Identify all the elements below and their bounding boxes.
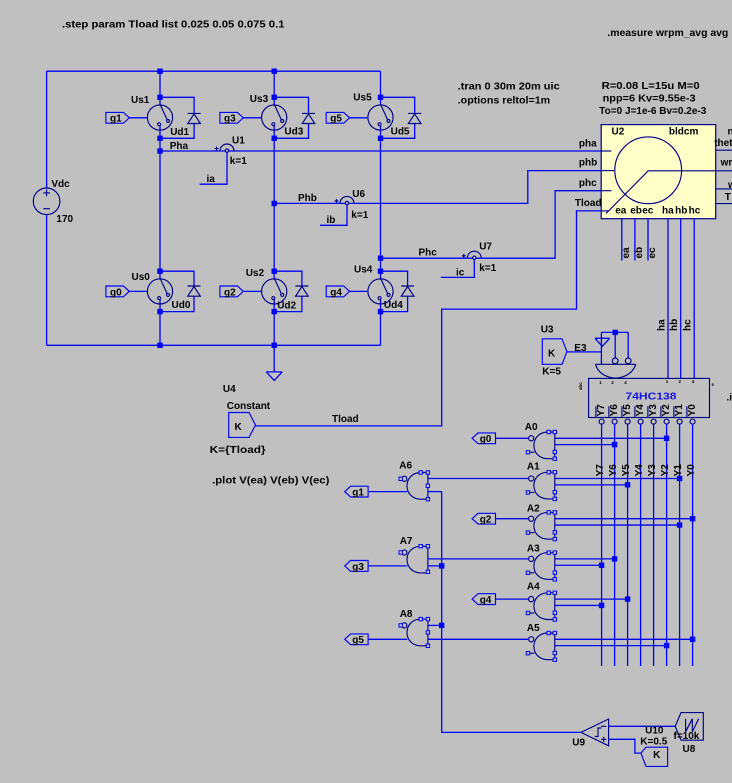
svg-text:ea: ea bbox=[621, 247, 632, 259]
svg-text:g2: g2 bbox=[480, 515, 492, 526]
and-gate A0 bbox=[526, 430, 556, 460]
svg-text:.step param Tload list 0.025 0: .step param Tload list 0.025 0.05 0.075 … bbox=[62, 20, 285, 31]
wire A5 input2 to Y2 bbox=[555, 645, 667, 647]
svg-text:hc: hc bbox=[683, 319, 694, 331]
wire net ea stub bbox=[621, 219, 623, 261]
flag g5 bbox=[326, 112, 349, 124]
pin stub torque right bbox=[716, 203, 732, 205]
voltage source Vdc bbox=[33, 188, 60, 215]
wire bus Y5 bbox=[627, 424, 629, 666]
wire diode loop Ud3 bbox=[274, 97, 308, 113]
diode Ud5 bbox=[408, 113, 421, 123]
svg-text:K=0.5: K=0.5 bbox=[640, 737, 667, 748]
svg-text:Y6: Y6 bbox=[609, 404, 620, 417]
pin stub wrpm right bbox=[716, 188, 732, 190]
svg-text:Y0: Y0 bbox=[686, 464, 697, 477]
junction Ud0 bottom bbox=[157, 309, 162, 314]
svg-text:g0: g0 bbox=[480, 434, 492, 445]
wire net ib bbox=[320, 204, 347, 225]
wire g5 to Us5 bbox=[350, 117, 368, 119]
junction bottom rail at Us2 / ground bbox=[272, 343, 277, 348]
svg-text:R=0.08 L=15u M=0: R=0.08 L=15u M=0 bbox=[602, 81, 700, 92]
junction A0-Y2 bbox=[664, 436, 669, 441]
junction Ud3 bottom bbox=[272, 136, 277, 141]
svg-text:A4: A4 bbox=[527, 582, 540, 593]
wire bus Y2 bbox=[666, 424, 668, 666]
flag g4 at gate A4 bbox=[472, 594, 495, 606]
svg-text:Y0: Y0 bbox=[687, 404, 698, 417]
pin stub phc bbox=[601, 190, 611, 192]
junction A2-Y0 bbox=[690, 516, 695, 521]
wire A8 to A5 output bbox=[428, 638, 529, 640]
junction Ud0 top bbox=[157, 269, 162, 274]
svg-text:U6: U6 bbox=[352, 189, 365, 200]
flag g5 at gate A8 bbox=[345, 634, 368, 646]
svg-text:Y2: Y2 bbox=[660, 464, 671, 477]
pin stub pha bbox=[601, 150, 611, 152]
wire A6 pin4 to pwm column bbox=[428, 491, 442, 493]
wire A0 input2 to Y6 bbox=[555, 444, 615, 446]
pin stub theta right bbox=[716, 149, 732, 151]
junction node Phb bbox=[272, 201, 277, 206]
wire A4 input2 to Y7 bbox=[555, 604, 602, 606]
wire bus Y3 bbox=[653, 424, 655, 666]
pin bubble Y2 bbox=[664, 419, 669, 424]
junction A1-Y5 bbox=[625, 482, 630, 487]
current sensor U1 bbox=[215, 144, 235, 152]
wire A2 input1 to Y0 bbox=[555, 518, 693, 520]
wire enable gate input right bbox=[627, 332, 629, 358]
svg-text:Y5: Y5 bbox=[621, 464, 632, 477]
junction A2-Y1 bbox=[677, 522, 682, 527]
svg-text:ic: ic bbox=[456, 268, 465, 279]
svg-text:A7: A7 bbox=[400, 536, 413, 547]
wire U9 minus input to U8 bbox=[609, 725, 676, 727]
junction Ud2 bottom bbox=[272, 309, 277, 314]
wire enable gate input mid bbox=[614, 332, 616, 358]
svg-text:ha: ha bbox=[657, 319, 668, 331]
pin bubble Y7 bbox=[599, 419, 604, 424]
and-gate A7 bbox=[399, 545, 430, 574]
diode Ud0 bbox=[188, 286, 201, 296]
svg-text:U4: U4 bbox=[223, 384, 236, 395]
svg-text:g0: g0 bbox=[110, 287, 122, 298]
wire phase-C column bbox=[380, 71, 382, 106]
junction Ud3 top bbox=[272, 95, 277, 100]
wire net Phc bbox=[381, 191, 602, 259]
svg-text:g1: g1 bbox=[352, 488, 364, 499]
diode Ud4 bbox=[401, 286, 414, 296]
svg-text:w: w bbox=[727, 180, 732, 191]
svg-text:g3: g3 bbox=[352, 562, 364, 573]
svg-text:ia: ia bbox=[207, 174, 216, 185]
svg-text:A1: A1 bbox=[527, 461, 540, 472]
junction A5-Y2 bbox=[664, 643, 669, 648]
flag g3 bbox=[220, 112, 243, 124]
wire g3 flag to A7 bbox=[368, 565, 407, 567]
svg-text:Ud5: Ud5 bbox=[391, 127, 410, 138]
junction node Phc bbox=[378, 256, 383, 261]
svg-text:Us2: Us2 bbox=[246, 268, 265, 279]
wire A3 input1 to Y6 bbox=[555, 558, 615, 560]
flag g1 at gate A6 bbox=[345, 486, 368, 498]
svg-text:g2: g2 bbox=[224, 287, 236, 298]
flag g2 bbox=[220, 286, 243, 298]
svg-text:eb: eb bbox=[634, 247, 645, 259]
switch Us1 bbox=[147, 105, 172, 130]
junction Ud2 top bbox=[272, 269, 277, 274]
svg-text:.options reltol=1m: .options reltol=1m bbox=[458, 95, 551, 106]
svg-text:hb: hb bbox=[675, 206, 687, 217]
wire g0 to Us0 bbox=[129, 290, 147, 292]
svg-text:U10: U10 bbox=[645, 725, 664, 736]
wire top rail bbox=[47, 70, 381, 72]
svg-text:U3: U3 bbox=[541, 324, 554, 335]
svg-text:.measure wrpm_avg avg: .measure wrpm_avg avg bbox=[607, 28, 728, 39]
ground at E3 gate bbox=[595, 338, 610, 346]
wire net hc bbox=[693, 219, 695, 379]
svg-text:U2: U2 bbox=[612, 127, 625, 138]
svg-text:ha: ha bbox=[662, 206, 674, 217]
svg-text:Us3: Us3 bbox=[250, 94, 269, 105]
junction node Pha bbox=[157, 148, 162, 153]
wire diode loop Ud5 bbox=[381, 97, 415, 113]
wire pwm column to U9 output bbox=[442, 492, 581, 733]
wire diode loop Ud4 bbox=[381, 271, 408, 286]
svg-text:Constant: Constant bbox=[227, 401, 271, 412]
svg-text:Phb: Phb bbox=[298, 193, 317, 204]
wire enable gate left input column bbox=[600, 332, 602, 364]
junction Ud4 top bbox=[378, 269, 383, 274]
junction A3-Y6 bbox=[612, 556, 617, 561]
wire bus Y7 bbox=[601, 424, 603, 666]
and-gate A6 bbox=[399, 471, 430, 501]
svg-text:Us0: Us0 bbox=[132, 272, 151, 283]
svg-text:Y1: Y1 bbox=[674, 404, 685, 417]
svg-text:ib: ib bbox=[327, 215, 336, 226]
svg-text:A5: A5 bbox=[527, 623, 540, 634]
wire g2 to Us2 bbox=[243, 290, 261, 292]
svg-text:K: K bbox=[548, 348, 556, 359]
wire enable gate top link bbox=[601, 331, 628, 333]
svg-text:A3: A3 bbox=[527, 543, 540, 554]
junction A1-Y1 bbox=[677, 476, 682, 481]
svg-text:A6: A6 bbox=[399, 461, 412, 472]
wire Vdc column bbox=[46, 71, 48, 188]
svg-text:A8: A8 bbox=[400, 609, 413, 620]
svg-text:T: T bbox=[725, 192, 731, 203]
wire diode loop Ud1 bbox=[160, 97, 194, 113]
diode Ud2 bbox=[295, 286, 308, 296]
svg-text:Y4: Y4 bbox=[635, 404, 646, 417]
wire A2 input2 to Y1 bbox=[555, 524, 680, 526]
svg-text:ea: ea bbox=[615, 206, 627, 217]
svg-text:k=1: k=1 bbox=[479, 263, 496, 274]
wire A0 input1 to Y2 bbox=[555, 437, 667, 439]
svg-text:g5: g5 bbox=[352, 635, 364, 646]
wire A1 input1 to Y1 bbox=[555, 478, 680, 480]
wire diode loop Ud0 bbox=[160, 271, 194, 286]
svg-text:f=10k: f=10k bbox=[674, 731, 700, 742]
junction A5-Y0 bbox=[690, 637, 695, 642]
switch Us5 bbox=[368, 105, 393, 130]
pin bubble Y5 bbox=[625, 419, 630, 424]
flag g0 bbox=[106, 286, 129, 298]
svg-text:K=5: K=5 bbox=[542, 367, 561, 378]
junction bottom rail at Us0 bbox=[157, 343, 162, 348]
wire net hb bbox=[680, 219, 682, 379]
junction Ud1 top bbox=[157, 95, 162, 100]
svg-text:g4: g4 bbox=[330, 287, 342, 298]
current sensor U6 bbox=[335, 196, 355, 204]
wire bus Y1 bbox=[679, 424, 681, 666]
junction Ud4 bottom bbox=[378, 309, 383, 314]
svg-text:Tload: Tload bbox=[332, 414, 359, 425]
svg-text:U1: U1 bbox=[232, 135, 245, 146]
wire g5 flag to A8 bbox=[368, 638, 407, 640]
junction A8-pwm bbox=[439, 623, 444, 628]
flag g3 at gate A7 bbox=[345, 561, 368, 573]
junction A4-Y7 bbox=[599, 603, 604, 608]
constant source U10 bbox=[641, 747, 668, 766]
wire A5 input1 to Y0 bbox=[555, 638, 693, 640]
svg-text:K: K bbox=[235, 422, 243, 433]
svg-text:hc: hc bbox=[689, 206, 701, 217]
wire A7 to A3 output bbox=[428, 558, 529, 560]
sawtooth source U8 bbox=[675, 713, 703, 741]
and-gate A3 bbox=[526, 551, 556, 581]
wire net ia bbox=[200, 152, 227, 184]
svg-text:Y2: Y2 bbox=[661, 404, 672, 417]
svg-text:Vdc: Vdc bbox=[51, 179, 70, 190]
svg-text:Ud1: Ud1 bbox=[170, 127, 189, 138]
wire net ic bbox=[441, 259, 475, 277]
gain block U3 bbox=[542, 339, 567, 365]
svg-text:k=1: k=1 bbox=[230, 156, 247, 167]
svg-text:Y3: Y3 bbox=[647, 464, 658, 477]
svg-text:phb: phb bbox=[579, 158, 597, 169]
tiny pin numbers decoder top bbox=[578, 379, 715, 390]
svg-text:k=1: k=1 bbox=[351, 210, 368, 221]
diode Ud1 bbox=[188, 113, 201, 123]
wire g0 flag to A0 bbox=[496, 437, 529, 439]
svg-text:K: K bbox=[653, 750, 661, 761]
svg-text:Y7: Y7 bbox=[595, 464, 606, 477]
svg-text:ec: ec bbox=[647, 247, 658, 259]
svg-text:pha: pha bbox=[579, 138, 597, 149]
svg-text:hb: hb bbox=[669, 319, 680, 331]
wire phase-A column bbox=[159, 71, 161, 106]
wire diode loop Ud2 bbox=[274, 271, 302, 286]
svg-text:g5: g5 bbox=[330, 114, 342, 125]
svg-text:Y3: Y3 bbox=[648, 404, 659, 417]
svg-text:Us5: Us5 bbox=[353, 93, 372, 104]
svg-text:Tload: Tload bbox=[575, 198, 602, 209]
pin bubble Y4 bbox=[638, 419, 643, 424]
wire bus Y4 bbox=[640, 424, 642, 666]
svg-text:phc: phc bbox=[579, 178, 597, 189]
svg-text:Pha: Pha bbox=[170, 141, 189, 152]
junction top rail at Us1 bbox=[157, 69, 162, 74]
wire g2 flag to A2 bbox=[496, 518, 529, 520]
svg-text:n: n bbox=[728, 126, 732, 137]
and-gate A1 bbox=[526, 471, 556, 501]
svg-text:g1: g1 bbox=[110, 114, 122, 125]
junction A3-Y7 bbox=[599, 563, 604, 568]
svg-text:Y1: Y1 bbox=[673, 464, 684, 477]
wire A3 input2 to Y7 bbox=[555, 564, 602, 566]
svg-text:U7: U7 bbox=[479, 241, 492, 252]
and-gate A5 bbox=[526, 631, 556, 661]
junction Ud1 bottom bbox=[157, 136, 162, 141]
svg-text:A0: A0 bbox=[525, 422, 538, 433]
svg-text:eb: eb bbox=[630, 206, 642, 217]
pin stub Tload bbox=[601, 210, 608, 212]
wire bus Y6 bbox=[614, 424, 616, 666]
and-gate A8 bbox=[399, 617, 430, 647]
pin labels Y7..Y0 inside decoder (rotated) bbox=[596, 404, 698, 418]
wire bus Y0 bbox=[692, 424, 694, 666]
wire g4 to Us4 bbox=[350, 290, 368, 292]
svg-text:.in: .in bbox=[727, 393, 732, 404]
svg-text:ec: ec bbox=[642, 206, 654, 217]
junction A0-Y6 bbox=[612, 442, 617, 447]
junction top rail at Us3 bbox=[272, 69, 277, 74]
wire A8 pin2 to pwm column bbox=[428, 624, 442, 626]
svg-text:.plot V(ea) V(eb) V(ec): .plot V(ea) V(eb) V(ec) bbox=[212, 476, 329, 487]
OR gate with inverted inputs (74HC138 enable) bbox=[596, 358, 636, 378]
wire g3 to Us3 bbox=[243, 117, 261, 119]
wire A6 to A1 output bbox=[428, 478, 529, 480]
svg-text:.tran 0 30m 20m uic: .tran 0 30m 20m uic bbox=[458, 82, 560, 93]
switch Us2 bbox=[262, 279, 287, 304]
wire g1 flag to A6 bbox=[368, 491, 407, 493]
svg-text:Us1: Us1 bbox=[131, 95, 150, 106]
svg-text:wr: wr bbox=[720, 158, 732, 169]
wire net ec stub bbox=[647, 219, 649, 261]
svg-text:U8: U8 bbox=[683, 744, 696, 755]
junction A4-Y5 bbox=[625, 596, 630, 601]
wire net Pha bbox=[160, 150, 601, 152]
svg-text:Y5: Y5 bbox=[622, 404, 633, 417]
junction A7-pwm bbox=[439, 563, 444, 568]
wire phase-B column bbox=[273, 71, 275, 106]
pin bubble Y1 bbox=[677, 419, 682, 424]
decoder 74HC138 bbox=[589, 378, 710, 417]
wire net Tload bbox=[256, 211, 602, 426]
svg-text:U9: U9 bbox=[572, 737, 585, 748]
net labels Y7..Y0 on bus (rotated) bbox=[595, 464, 697, 477]
svg-text:thet: thet bbox=[714, 138, 732, 149]
pin bubble Y3 bbox=[651, 419, 656, 424]
svg-text:Us4: Us4 bbox=[354, 265, 373, 276]
svg-text:170: 170 bbox=[56, 214, 73, 225]
svg-text:A2: A2 bbox=[527, 504, 540, 515]
wire bottom rail bbox=[47, 344, 381, 346]
wire A7 pin3 to pwm column bbox=[428, 565, 442, 567]
ground at bottom rail bbox=[266, 345, 282, 380]
svg-text:Ud3: Ud3 bbox=[284, 127, 303, 138]
svg-text:To=0 J=1e-6 Bv=0.2e-3: To=0 J=1e-6 Bv=0.2e-3 bbox=[599, 106, 706, 117]
svg-text:bldcm: bldcm bbox=[669, 127, 699, 138]
constant source U4 bbox=[229, 413, 256, 438]
and-gate A4 bbox=[526, 591, 556, 621]
junction E3 node bbox=[613, 330, 618, 335]
wire E3 to enable gate bbox=[567, 351, 602, 353]
svg-text:npp=6 Kv=9.55e-3: npp=6 Kv=9.55e-3 bbox=[603, 94, 696, 105]
and-gate A2 bbox=[526, 511, 556, 541]
switch Us3 bbox=[262, 105, 287, 130]
svg-text:Y4: Y4 bbox=[634, 464, 645, 477]
wire net Phb bbox=[274, 171, 601, 204]
svg-text:Phc: Phc bbox=[419, 247, 438, 258]
wire U9 plus input to U10 bbox=[609, 739, 641, 753]
flag g0 at gate A0 bbox=[472, 433, 495, 445]
junction Ud5 top bbox=[378, 95, 383, 100]
pin bubble Y0 bbox=[690, 419, 695, 424]
wire net ha bbox=[667, 219, 669, 379]
flag g1 bbox=[106, 112, 129, 124]
pin bubble Y6 bbox=[612, 419, 617, 424]
svg-text:Ud4: Ud4 bbox=[384, 300, 403, 311]
svg-text:abc: abc bbox=[578, 382, 583, 390]
diode Ud3 bbox=[302, 113, 315, 123]
current sensor U7 bbox=[462, 251, 482, 259]
wire g4 flag to A4 bbox=[496, 598, 529, 600]
svg-text:Ud0: Ud0 bbox=[172, 300, 191, 311]
switch Us0 bbox=[147, 279, 172, 304]
svg-text:Y6: Y6 bbox=[608, 464, 619, 477]
svg-text:Y7: Y7 bbox=[596, 404, 607, 417]
motor U2 bldcm body bbox=[601, 125, 732, 219]
pin stub phb bbox=[601, 170, 614, 172]
flag g4 bbox=[326, 286, 349, 298]
wire net eb stub bbox=[634, 219, 636, 261]
svg-text:K={Tload}: K={Tload} bbox=[210, 445, 266, 456]
svg-text:Ud2: Ud2 bbox=[277, 301, 296, 312]
wire g1 to Us1 bbox=[129, 117, 147, 119]
flag g2 at gate A2 bbox=[472, 513, 495, 525]
comparator U9 bbox=[581, 719, 609, 746]
wire A1 input2 to Y5 bbox=[555, 484, 628, 486]
svg-text:g4: g4 bbox=[480, 595, 492, 606]
svg-text:g3: g3 bbox=[224, 114, 236, 125]
svg-text:74HC138: 74HC138 bbox=[626, 391, 678, 402]
junction Ud5 bottom bbox=[378, 136, 383, 141]
switch Us4 bbox=[368, 279, 393, 304]
wire A4 input1 to Y5 bbox=[555, 598, 628, 600]
